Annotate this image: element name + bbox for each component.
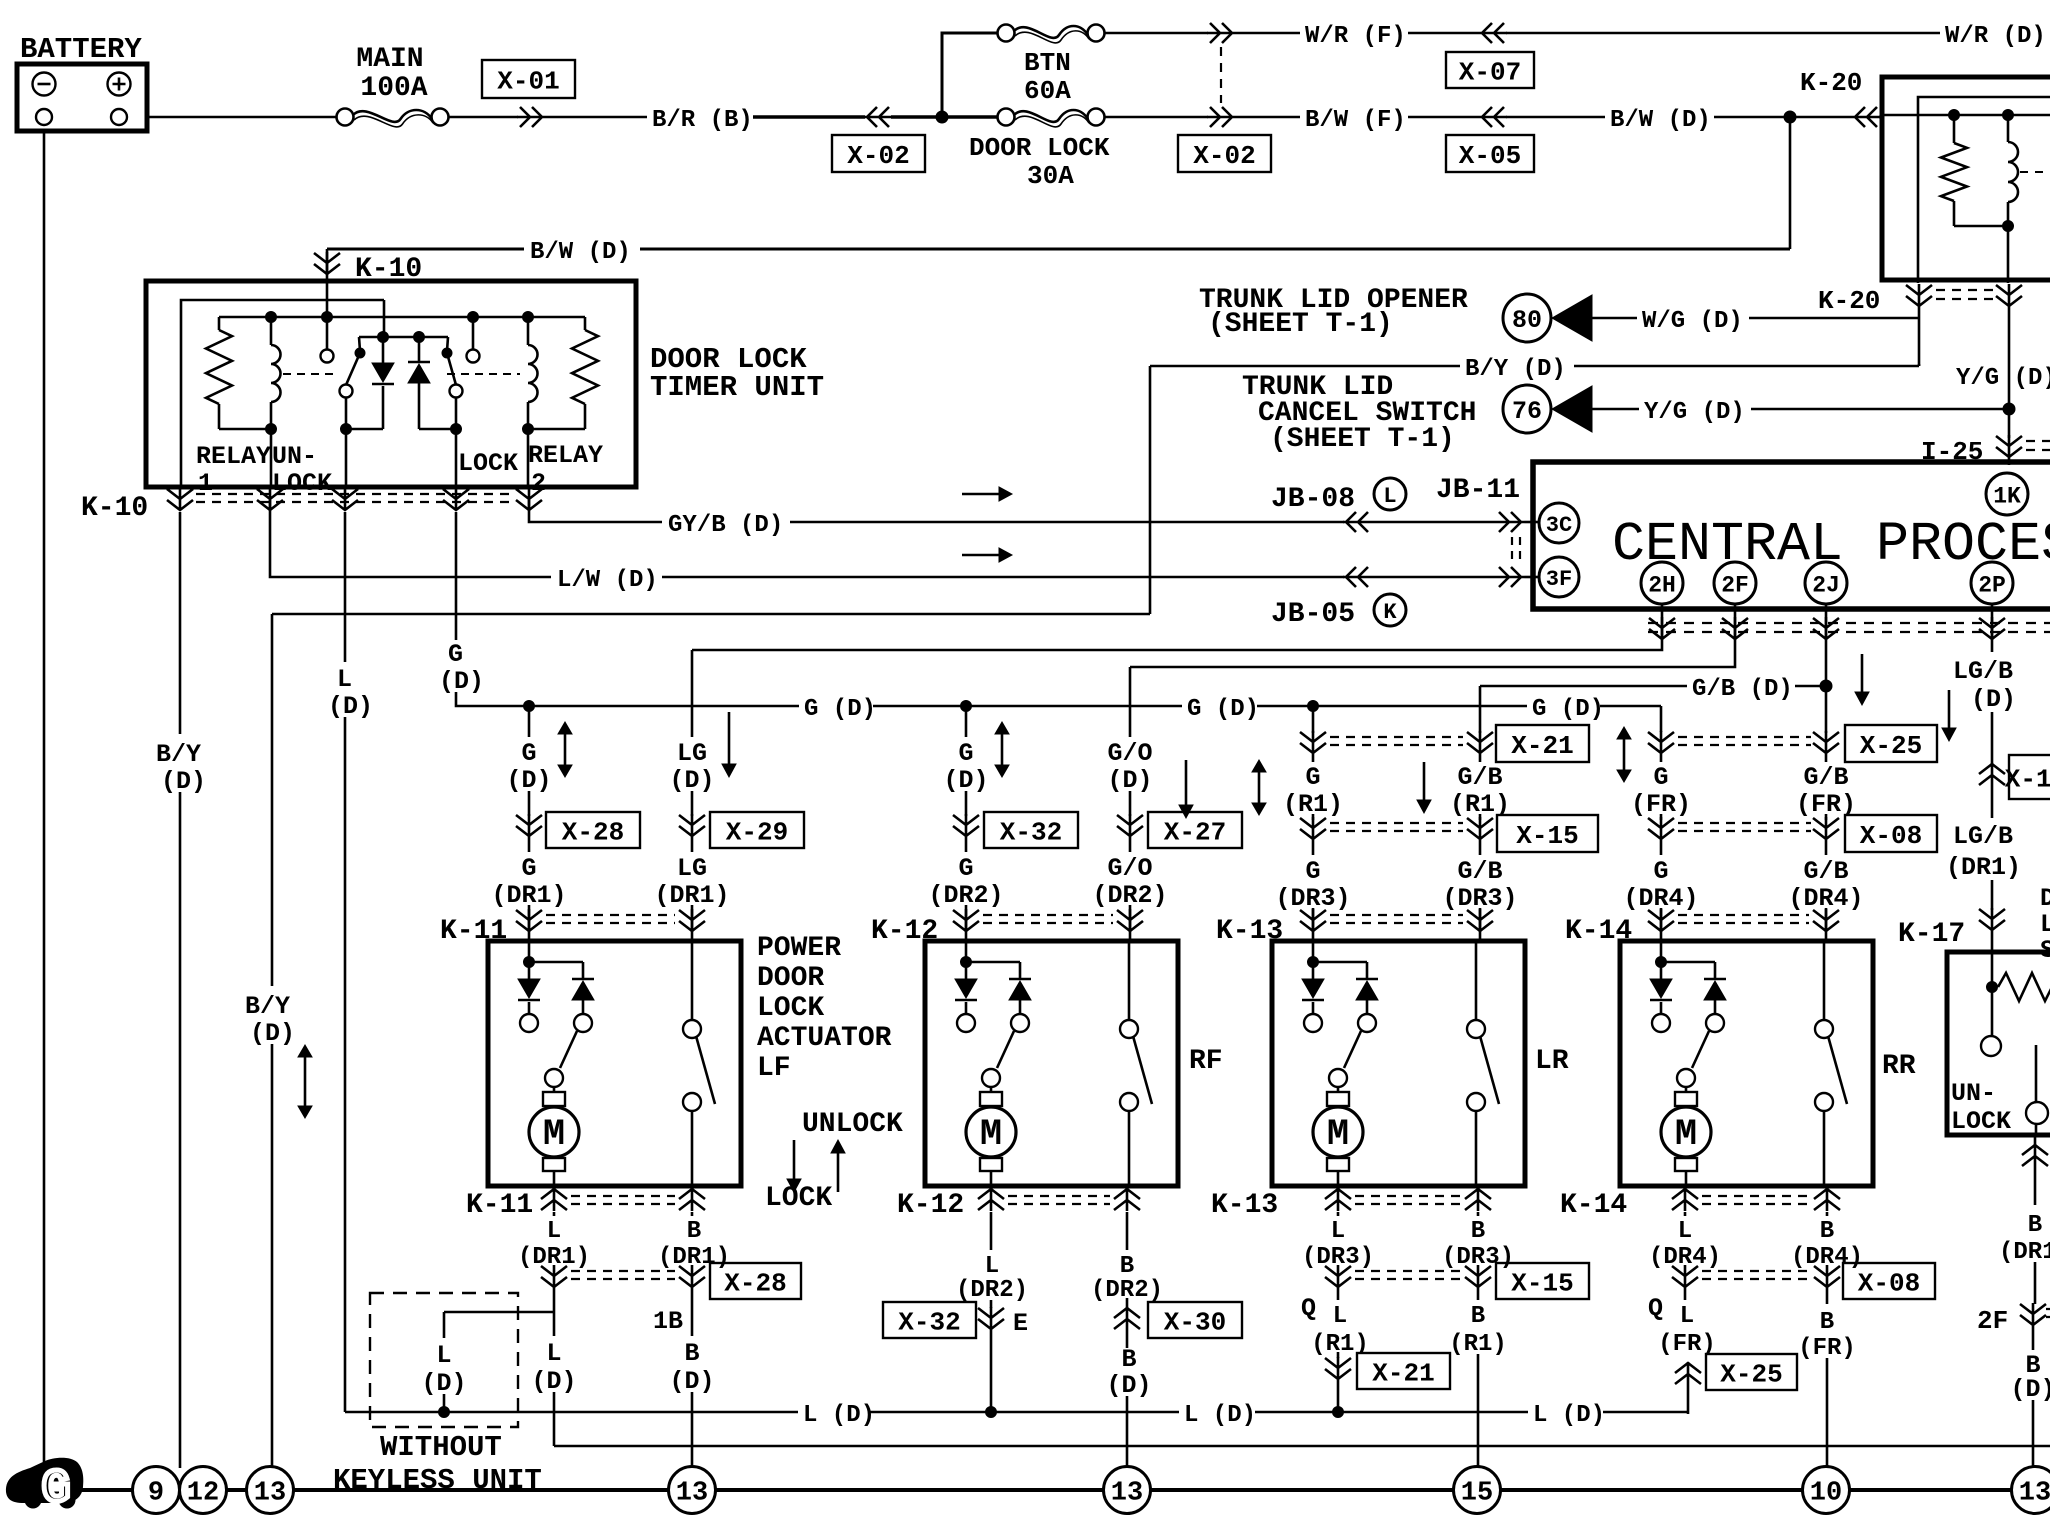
- svg-text:W/R (D): W/R (D): [1945, 23, 2046, 50]
- svg-text:G/B: G/B: [1457, 763, 1502, 792]
- svg-text:X-28: X-28: [562, 817, 624, 847]
- svg-text:B: B: [1820, 1309, 1834, 1336]
- svg-text:K: K: [1383, 600, 1397, 625]
- wire LR right pin lower: [1475, 1111, 1478, 1186]
- wire chain3 to K-12: [965, 905, 968, 941]
- connector X-07: [1446, 52, 1534, 88]
- svg-text:LF: LF: [757, 1053, 791, 1084]
- svg-text:L (D): L (D): [803, 1402, 875, 1429]
- wire chain1 mid2: [528, 837, 531, 852]
- svg-text:L: L: [436, 1341, 451, 1370]
- connector chevron X-32 lower: [978, 1307, 1004, 1330]
- wire LG/B chain mid: [1991, 712, 1994, 766]
- svg-text:DOOR: DOOR: [757, 963, 824, 994]
- wire chain LG stub: [691, 650, 694, 737]
- wire chain5 to K-13: [1312, 908, 1315, 943]
- connector K-12 lower chevron right: [1114, 1188, 1140, 1211]
- svg-text:LR: LR: [1535, 1046, 1569, 1077]
- connector X-17 (clipped): [2009, 755, 2050, 799]
- svg-text:(SHEET T-1): (SHEET T-1): [1208, 309, 1393, 340]
- svg-text:(D): (D): [669, 766, 714, 795]
- wire chain5 mid: [1312, 754, 1315, 762]
- wire chain3 mid: [965, 791, 968, 816]
- connector chevron X-27: [1117, 814, 1143, 837]
- wire chain1 mid: [528, 791, 531, 816]
- svg-text:(DR1): (DR1): [1999, 1239, 2050, 1266]
- connector K-11 dashed: [546, 915, 675, 923]
- svg-text:X-25: X-25: [1720, 1359, 1782, 1389]
- wire DLS to circle: [2032, 1400, 2035, 1467]
- wire chain2 mid2: [691, 837, 694, 852]
- svg-text:G (D): G (D): [1187, 696, 1259, 723]
- svg-text:W/R (F): W/R (F): [1305, 23, 1406, 50]
- wire chain2 to K-11: [691, 905, 694, 941]
- svg-text:UN-: UN-: [272, 442, 317, 471]
- svg-text:LG: LG: [677, 739, 707, 768]
- wire RR right pin lower: [1823, 1111, 1826, 1186]
- coil (relay box): [2007, 115, 2010, 142]
- wire W/G (D) left: [1592, 317, 1637, 320]
- svg-text:1B: 1B: [653, 1307, 683, 1336]
- wire to B/W (F) label: [1235, 116, 1300, 119]
- wire L (D) bus seg7: [1603, 1411, 1688, 1414]
- junction node G bus 3: [1308, 701, 1319, 712]
- relay box (door lock relay): [1882, 77, 2050, 280]
- wire into pin 3F: [1524, 576, 1540, 579]
- wire fuse to X-01 chevron: [449, 116, 519, 119]
- wire relay2 to K-10 pin5: [527, 429, 530, 489]
- contact RF a: [957, 1014, 975, 1032]
- wire chain8 mid2: [1825, 814, 1828, 820]
- wire keyless option jog: [444, 1311, 554, 1314]
- svg-text:L: L: [1333, 1303, 1347, 1330]
- pin 2P: [1971, 562, 2013, 604]
- wire LR-B mid: [1477, 1288, 1480, 1300]
- wire LF right pin lower: [691, 1111, 694, 1186]
- connector X-05: [1446, 135, 1534, 172]
- wire switch to box bottom: [2035, 1124, 2038, 1135]
- junction node relay2 out: [523, 424, 534, 435]
- svg-text:K-20: K-20: [1800, 68, 1862, 98]
- svg-text:G: G: [448, 640, 463, 669]
- svg-text:JB-05: JB-05: [1271, 599, 1355, 630]
- junction node lock out: [451, 424, 462, 435]
- sheet ref 80 trunk lid opener: [1503, 294, 1551, 342]
- switch arm unlock: [355, 348, 365, 358]
- wire B/Y (D) to circle 13: [271, 1044, 274, 1467]
- switch arm RR right: [1828, 1036, 1847, 1104]
- wire RR-B mid: [1826, 1288, 1829, 1304]
- connector K-14 lower chevron right: [1814, 1188, 1840, 1211]
- connector chevron X-08 lower right: [1814, 1265, 1840, 1288]
- svg-text:1K: 1K: [1993, 483, 2021, 509]
- wire G (D) bus seg4: [1600, 706, 1661, 732]
- svg-text:Q: Q: [1648, 1294, 1663, 1323]
- svg-text:B/Y: B/Y: [156, 740, 201, 769]
- svg-text:B: B: [687, 1218, 701, 1245]
- connector K-14 chevron right: [1813, 909, 1839, 932]
- wire W/R (F): [1408, 32, 1479, 35]
- svg-text:K-20: K-20: [1818, 286, 1880, 316]
- svg-text:G (D): G (D): [1532, 696, 1604, 723]
- connector X-01: [482, 60, 575, 98]
- wire L/W elbow from relay: [270, 500, 551, 577]
- svg-text:BTN: BTN: [1024, 48, 1071, 78]
- diode LF D1: [528, 962, 531, 979]
- svg-text:(DR1): (DR1): [1946, 853, 2021, 882]
- ground node 13 at x=270: [247, 1467, 294, 1514]
- wire RF-B to circle: [1126, 1396, 1129, 1467]
- wire chain G(D) stub: [528, 706, 531, 737]
- timer inner box: [181, 300, 384, 487]
- diode D2 (timer): [418, 337, 421, 362]
- connector chevron X-08 left: [1648, 817, 1674, 840]
- junction node at fuse block: [936, 111, 948, 123]
- contact (bus) left: [326, 318, 329, 349]
- switch arm RF motor-side: [997, 1031, 1014, 1068]
- wire pin 2H down-left: [692, 604, 1662, 650]
- connector chevron 2H: [1649, 617, 1675, 640]
- wire chain4 stub: [1129, 667, 1132, 737]
- svg-text:MAIN: MAIN: [356, 44, 423, 75]
- svg-text:G: G: [42, 1463, 70, 1515]
- svg-text:13: 13: [2019, 1479, 2050, 1509]
- svg-text:(D): (D): [2010, 1375, 2050, 1404]
- connector K-13 dashed: [1330, 915, 1463, 923]
- dashed actuation link left: [283, 373, 333, 375]
- svg-text:X-08: X-08: [1860, 821, 1922, 851]
- arrow up-down chain3: [1001, 733, 1004, 766]
- wire G/B (D) right segment: [1795, 685, 1820, 688]
- junction node K-20 feed: [1784, 111, 1796, 123]
- resistor relay 1: [218, 317, 221, 330]
- wire to W/R (F) label: [1235, 32, 1300, 35]
- connector chevron X-28: [516, 814, 542, 837]
- wire B/W (D) long: [640, 248, 1790, 251]
- motor M (LR): [1337, 1087, 1340, 1092]
- wire B/W (F): [1408, 116, 1479, 119]
- wire DLS out: [2034, 1135, 2037, 1146]
- contact LR a: [1304, 1014, 1322, 1032]
- svg-text:L: L: [1678, 1218, 1692, 1245]
- door lock switch box: [1947, 952, 2050, 1135]
- pin 2F: [1714, 562, 1756, 604]
- svg-text:L: L: [1331, 1218, 1345, 1245]
- fuse BTN 60A: [998, 25, 1015, 42]
- svg-text:LOCK: LOCK: [765, 1183, 832, 1214]
- connector chevron X-02 bottom (out): [1207, 107, 1235, 127]
- svg-text:9: 9: [148, 1479, 164, 1509]
- svg-text:LOCK: LOCK: [2040, 910, 2050, 939]
- connector X-27: [1148, 812, 1242, 848]
- svg-text:B: B: [1120, 1253, 1134, 1280]
- contact common (switch): [2026, 1102, 2048, 1124]
- fuse MAIN 100A: [337, 109, 354, 126]
- wire RR-B upper: [1826, 1212, 1829, 1216]
- connector chevron X-29: [679, 814, 705, 837]
- connector chevron X-08 right: [1813, 817, 1839, 840]
- wire chain7 mid3: [1660, 840, 1663, 855]
- svg-text:(FR): (FR): [1798, 1335, 1856, 1362]
- wire chain6 mid3: [1479, 840, 1482, 855]
- wire coil to box bottom: [2007, 226, 2010, 283]
- svg-text:X-29: X-29: [726, 817, 788, 847]
- switch arm LF motor-side: [560, 1031, 577, 1068]
- svg-text:100A: 100A: [360, 73, 427, 104]
- pin 3F: [1539, 557, 1579, 597]
- wire keyless option drop: [443, 1312, 446, 1338]
- svg-text:G: G: [1653, 763, 1668, 792]
- wire RF-B upper: [1126, 1212, 1129, 1250]
- svg-text:(DR1): (DR1): [658, 1244, 730, 1271]
- wire B/W (D) riser: [1789, 117, 1792, 249]
- connector X-25: [1845, 725, 1937, 762]
- connector chevron 3F (in): [1496, 567, 1524, 587]
- svg-text:GY/B (D): GY/B (D): [668, 512, 783, 539]
- connector X-21 dashed: [1330, 737, 1463, 745]
- wire G (D) bus seg1: [526, 705, 799, 708]
- connector I-25 dashed: [2026, 441, 2050, 450]
- wire chain8 mid3: [1825, 840, 1828, 855]
- svg-text:G/B: G/B: [1803, 763, 1848, 792]
- ground node 10 at x=1826: [1803, 1467, 1850, 1514]
- wire LG/B chain mid2: [1991, 786, 1994, 818]
- junction node coil top: [2003, 110, 2014, 121]
- connector chevron X-17: [1979, 763, 2005, 786]
- wire pin 2F down-left: [1130, 604, 1735, 667]
- connector K-12 lower dashed: [1008, 1196, 1110, 1204]
- connector chevron X-15 lower right: [1465, 1265, 1491, 1288]
- wire keyless to dot: [443, 1394, 446, 1412]
- wire chain7 mid2: [1660, 814, 1663, 820]
- wire lock rail to K-10 pin4: [455, 429, 458, 489]
- wire chain4 mid: [1129, 791, 1132, 816]
- svg-text:X-07: X-07: [1459, 57, 1521, 87]
- wire B/Y (D) horizontal right: [1574, 364, 1919, 366]
- junction node switch res: [1987, 982, 1998, 993]
- connector X-15 (lower): [1496, 1263, 1589, 1299]
- svg-text:G: G: [1653, 857, 1668, 886]
- arrow down chain4: [1185, 760, 1188, 806]
- svg-text:L (D): L (D): [1533, 1402, 1605, 1429]
- wire LG/B chain mid3: [1991, 880, 1994, 910]
- svg-text:76: 76: [1512, 397, 1542, 426]
- wire RR-L mid: [1684, 1288, 1687, 1300]
- junction node timer bus 2: [322, 312, 333, 323]
- ground node 13 at x=2035: [2012, 1467, 2050, 1514]
- wire W/R to right: [1506, 32, 1940, 35]
- wire Y/G (D) left: [1592, 408, 1639, 411]
- wire chain5 stub: [1312, 711, 1315, 733]
- svg-text:1: 1: [198, 469, 213, 498]
- junction node G/B (D): [1820, 680, 1832, 692]
- connector K-11 chevron left: [516, 909, 542, 932]
- connector X-25 dashed: [1678, 737, 1811, 745]
- wire B/Y (D) riser: [1149, 366, 1152, 614]
- wire chain6 mid: [1479, 754, 1482, 762]
- svg-text:DOOR LOCK: DOOR LOCK: [969, 133, 1110, 163]
- wire LF-L to bus: [553, 1392, 556, 1446]
- contact LF e: [683, 1093, 701, 1111]
- connector K-10 chevron (top): [314, 252, 340, 275]
- connector K-12 dashed: [983, 915, 1113, 923]
- connector chevron X-01 (out): [517, 107, 545, 127]
- svg-text:B: B: [1471, 1303, 1485, 1330]
- connector chevron X-28 lower right: [679, 1265, 705, 1288]
- arrow down chain2: [728, 712, 731, 765]
- connector K-10 chevron 2: [257, 488, 283, 511]
- power door lock actuator RR box: [1620, 941, 1873, 1186]
- svg-text:X-21: X-21: [1372, 1358, 1434, 1388]
- wire LR-B to circle: [1477, 1354, 1480, 1467]
- junction node RR diode feed: [1656, 957, 1667, 968]
- junction node G bus 1: [524, 701, 535, 712]
- motor M (LF): [553, 1087, 556, 1092]
- svg-text:RR: RR: [1882, 1051, 1916, 1082]
- svg-text:X-32: X-32: [898, 1307, 960, 1337]
- svg-text:UNLOCK: UNLOCK: [802, 1109, 903, 1140]
- contact unlock (switch): [1981, 1036, 2001, 1056]
- wire G (D) bus seg3: [1257, 705, 1527, 708]
- direction arrow right (L/W): [962, 554, 1000, 557]
- wire BTN fuse to chevron: [1105, 32, 1209, 35]
- svg-text:L: L: [546, 1339, 561, 1368]
- svg-text:LG/B: LG/B: [1953, 822, 2013, 851]
- wire L (D) bus seg6: [1341, 1411, 1528, 1414]
- svg-text:LOCK: LOCK: [458, 449, 518, 478]
- svg-text:RF: RF: [1189, 1046, 1223, 1077]
- wire L (D) bus seg2: [448, 1411, 798, 1414]
- svg-text:Y/G (D): Y/G (D): [1956, 365, 2050, 392]
- power door lock actuator LF box: [488, 941, 741, 1186]
- wire inner rail to K-20: [1917, 280, 1920, 283]
- arrow down (LG/B): [1948, 690, 1951, 729]
- svg-text:G/B: G/B: [1803, 857, 1848, 886]
- wire L (D) bus seg3: [869, 1411, 988, 1414]
- wire chain7 to K-14: [1660, 908, 1663, 943]
- switch arm RR motor-side: [1692, 1031, 1709, 1068]
- wire L (D) bus seg1: [345, 1411, 440, 1414]
- wire chain5 mid2: [1312, 814, 1315, 820]
- connector K-10 chevron 5: [516, 488, 542, 511]
- svg-text:(R1): (R1): [1449, 1331, 1507, 1358]
- wire G/B (D) left segment: [1480, 685, 1687, 688]
- connector K-20 dashed link: [1936, 290, 1993, 299]
- connector X-28 (lower): [710, 1263, 801, 1299]
- connector K-14 chevron left: [1648, 909, 1674, 932]
- svg-text:L: L: [985, 1253, 999, 1280]
- contact LR c: [1329, 1069, 1347, 1087]
- connector K-13 lower chevron left: [1325, 1188, 1351, 1211]
- junction node LR diode feed: [1308, 957, 1319, 968]
- svg-text:(SHEET T-1): (SHEET T-1): [1270, 424, 1455, 455]
- diode RF D1: [965, 962, 968, 979]
- connector K-12 chevron right: [1117, 909, 1143, 932]
- svg-text:G: G: [958, 854, 973, 883]
- diode RR D1: [1660, 962, 1663, 979]
- svg-text:WITHOUT: WITHOUT: [380, 1431, 502, 1464]
- motor M (RF): [990, 1087, 993, 1092]
- connector X-15 lower dashed: [1355, 1271, 1461, 1279]
- wire LR right pin upper: [1475, 941, 1478, 1020]
- wire K-20 right pin down: [2008, 307, 2011, 438]
- wire LF left pin: [528, 941, 531, 962]
- connector X-21: [1496, 725, 1589, 762]
- wire GY/B (D): [790, 521, 1344, 524]
- wire LF-L mid: [553, 1288, 556, 1336]
- connector chevron X-21 left: [1300, 731, 1326, 754]
- wire unlock rail to K-10 pin3: [345, 429, 348, 489]
- power door lock actuator LR box: [1272, 941, 1525, 1186]
- connector chevron 2F: [1722, 617, 1748, 640]
- connector K-20 chevron left: [1906, 284, 1932, 307]
- wire DLS mid2: [2034, 1262, 2037, 1304]
- wire pin4 elbow to G bus: [456, 692, 526, 706]
- wire RF right pin upper: [1128, 941, 1131, 1020]
- connector chevron X-25 left: [1648, 731, 1674, 754]
- connector chevron K-17: [1979, 908, 2005, 931]
- connector chevron X-15 left: [1300, 817, 1326, 840]
- svg-text:B/Y (D): B/Y (D): [1465, 356, 1566, 383]
- connector strip below CPU (dashed): [1648, 623, 2050, 632]
- wire LR left pin: [1312, 941, 1315, 962]
- connector chevron DLS (up): [2022, 1144, 2048, 1167]
- svg-text:L: L: [1383, 484, 1396, 509]
- wire LF-L upper: [553, 1212, 556, 1216]
- svg-text:B: B: [1121, 1345, 1136, 1374]
- connector chevron X-25 right: [1813, 731, 1839, 754]
- wire relay1 bottom tie: [219, 428, 271, 431]
- wire B/W (D): [1714, 116, 1852, 119]
- direction arrow right (GY/B): [962, 493, 1000, 496]
- connector chevron X-15 lower left: [1325, 1265, 1351, 1288]
- wire chain8 mid: [1825, 754, 1828, 762]
- connector chevron X-21 lower: [1325, 1357, 1351, 1380]
- svg-text:RELAY: RELAY: [196, 442, 271, 471]
- connector chevron 3C (in): [1496, 512, 1524, 532]
- junction node RF diode feed: [961, 957, 972, 968]
- contact LF b: [574, 1014, 592, 1032]
- svg-text:X-05: X-05: [1459, 141, 1521, 171]
- svg-text:X-15: X-15: [1511, 1268, 1573, 1298]
- wire B/Y (D) left riser: [271, 614, 274, 986]
- ground node 13 at x=692: [669, 1467, 716, 1514]
- svg-text:G: G: [521, 854, 536, 883]
- wire pin 2J down: [1825, 604, 1828, 733]
- wire chain6 stub: [1479, 686, 1482, 733]
- diode RF D2: [1009, 978, 1031, 981]
- connector chevron X-25 lower (up): [1675, 1362, 1701, 1385]
- svg-text:JB-11: JB-11: [1436, 475, 1520, 506]
- svg-text:10: 10: [1810, 1479, 1842, 1509]
- svg-text:ACTUATOR: ACTUATOR: [757, 1023, 892, 1054]
- wire relay2 bottom tie: [528, 428, 585, 431]
- svg-text:80: 80: [1512, 306, 1542, 335]
- svg-text:M: M: [543, 1114, 565, 1156]
- connector K-12 lower chevron left: [978, 1188, 1004, 1211]
- connector K-10 chevron 4: [443, 488, 469, 511]
- timer bus: [219, 316, 585, 319]
- connector K-14 dashed: [1678, 915, 1809, 923]
- connector X-32 (lower): [883, 1302, 976, 1338]
- connector X-25 (lower): [1706, 1354, 1797, 1390]
- svg-text:G: G: [1305, 763, 1320, 792]
- wire chain6 mid2: [1479, 814, 1482, 820]
- svg-text:(D): (D): [161, 767, 206, 796]
- svg-text:K-10: K-10: [81, 493, 148, 524]
- wire B/W inside relay box: [1884, 114, 2050, 117]
- wire LR diode jog: [1313, 962, 1367, 979]
